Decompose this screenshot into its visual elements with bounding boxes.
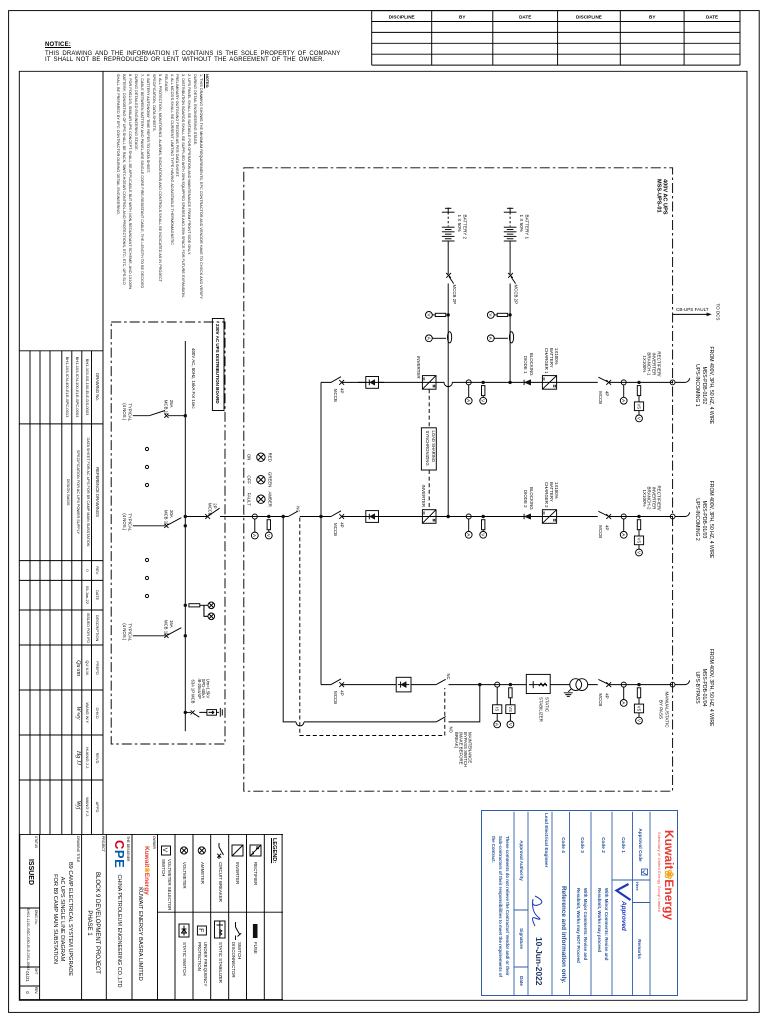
branch-1 wire (rectifier/inverter branch 1) with hop over battery-2 wire: [321, 382, 673, 386]
kuwait energy small logo: [144, 846, 152, 895]
svg-text:A: A: [466, 399, 471, 403]
svg-text:MCCB 2P: MCCB 2P: [514, 285, 519, 305]
stamp logo: [662, 830, 676, 920]
svg-text:A: A: [621, 701, 626, 705]
svg-text:MCCB: MCCB: [598, 391, 603, 404]
svg-text:A: A: [426, 337, 431, 341]
incomer VS transducer tap: [637, 381, 640, 384]
svg-text:V: V: [426, 313, 431, 317]
static stabilizer: [526, 674, 550, 693]
svg-text:CHARGER 1: CHARGER 1: [544, 348, 549, 374]
svg-text:SYNCHRONIZING: SYNCHRONIZING: [425, 431, 430, 466]
svg-text:TYPICAL: TYPICAL: [128, 623, 133, 642]
svg-text:A: A: [495, 723, 500, 727]
load sharing synchronizing box: [421, 428, 436, 470]
battery voltmeter tap with shunt: [497, 313, 508, 316]
svg-text:A: A: [621, 399, 626, 403]
svg-text:INVERTER: INVERTER: [416, 356, 421, 379]
distribution bus metering tap: [184, 604, 187, 607]
title block with legend (rotated): [19, 834, 283, 1000]
svg-text:1 X 50%: 1 X 50%: [519, 215, 524, 232]
svg-text:DIODE 1: DIODE 1: [523, 356, 528, 374]
svg-text:STATIC: STATIC: [544, 697, 549, 712]
discipline table: [372, 11, 740, 66]
svg-text:A: A: [252, 534, 257, 538]
svg-text:MSS-PDB-01/04: MSS-PDB-01/04: [701, 669, 707, 707]
transformer ground: [564, 689, 573, 697]
indicator lamps RED/GREEN/AMBER: [257, 453, 265, 461]
svg-text:CHARGER 2: CHARGER 2: [544, 482, 549, 508]
svg-text:VS: VS: [637, 403, 642, 409]
NO contact on maintenance bypass: [436, 717, 446, 722]
svg-text:BLOCKING: BLOCKING: [529, 487, 534, 510]
svg-text:4P: 4P: [605, 391, 610, 396]
svg-text:NC: NC: [446, 674, 451, 680]
battery 1 (1 X 50%): [507, 207, 513, 209]
svg-text:MSS-PDB-01/02: MSS-PDB-01/02: [701, 367, 707, 405]
output MCCB 4P: [331, 679, 341, 685]
svg-text:400V AC, 50Hz, 16kA For 1sec: 400V AC, 50Hz, 16kA For 1sec: [191, 348, 196, 409]
battery MCCB 2P: [446, 273, 451, 278]
feeder 20A MCB 1P: [133, 525, 165, 527]
svg-text:BATTERY 1: BATTERY 1: [525, 215, 530, 240]
svg-text:VS: VS: [637, 706, 642, 712]
output ammeter tap to distribution: [252, 514, 257, 519]
stamp signature: [529, 892, 549, 934]
svg-text:A: A: [466, 533, 471, 537]
incomer stub through panel border: [670, 514, 675, 519]
wire below MCCB: [509, 284, 511, 310]
svg-text:UPS-INCOMING 1: UPS-INCOMING 1: [694, 364, 700, 407]
stamp tick-here icon: [642, 869, 648, 875]
svg-text:63A 1P MCB: 63A 1P MCB: [191, 680, 196, 704]
charger input MCCB 4P: [598, 377, 608, 382]
svg-text:VS: VS: [637, 538, 642, 544]
legend: static stabilizer symbol: [215, 921, 226, 938]
spare feeder dots: [145, 447, 148, 450]
rectifier / battery charger 1: [542, 376, 556, 390]
svg-text:FROM 400V, 3PH, 50 HZ, 4 WIRE: FROM 400V, 3PH, 50 HZ, 4 WIRE: [708, 481, 714, 559]
svg-text:4P: 4P: [339, 690, 344, 695]
incomer ammeter tap: [621, 380, 626, 385]
svg-text:4P: 4P: [339, 522, 344, 527]
svg-text:STABILIZER: STABILIZER: [539, 697, 544, 722]
SPD surge arrester: [184, 711, 187, 714]
svg-text:MCCB 2P: MCCB 2P: [452, 285, 457, 305]
inverter 1: [422, 376, 436, 390]
battery 2 (1 X 50%): [445, 207, 451, 209]
output bus riser wire: [320, 382, 322, 684]
svg-text:MCCB: MCCB: [598, 693, 603, 706]
battery MCCB 2P: [508, 273, 513, 278]
svg-text:NO: NO: [449, 727, 454, 734]
output voltage transducer tap: [509, 683, 512, 686]
svg-text:ON: ON: [247, 454, 252, 460]
svg-text:(4 NOS.): (4 NOS.): [122, 403, 127, 421]
output voltmeter tap with shunt to distribution: [267, 515, 270, 518]
maintenance NC contact on branch-2 output: [288, 511, 298, 516]
svg-text:NC: NC: [296, 506, 301, 512]
svg-text:MCCB: MCCB: [598, 525, 603, 538]
legend: voltmeter symbol: [180, 847, 187, 854]
svg-text:UPS-BYPASS: UPS-BYPASS: [694, 672, 700, 705]
inverter 2: [422, 510, 436, 524]
legend: rectifier symbol: [250, 845, 261, 856]
svg-text:BLOCKING: BLOCKING: [529, 353, 534, 376]
wire battery drop: [447, 241, 449, 274]
svg-text:MANUAL/STATIC: MANUAL/STATIC: [664, 691, 669, 728]
svg-text:4P: 4P: [605, 693, 610, 698]
wire below MCCB: [447, 284, 449, 310]
bypass ammeter tap: [621, 682, 626, 687]
svg-text:V: V: [636, 551, 641, 555]
svg-text:4P: 4P: [605, 525, 610, 530]
svg-text:V: V: [636, 417, 641, 421]
svg-text:/8-20us/4P: /8-20us/4P: [197, 679, 202, 699]
svg-text:V: V: [508, 723, 513, 727]
svg-text:V: V: [481, 399, 486, 403]
svg-text:INVERTER: INVERTER: [421, 485, 426, 508]
svg-text:V: V: [636, 719, 641, 723]
blocking diode 1: [523, 380, 525, 385]
NC contact at static switch output: [436, 679, 446, 684]
battery 2 wire down, hops over branch-1 bus: [447, 332, 449, 517]
svg-text:4P: 4P: [339, 388, 344, 393]
notice text block: [45, 42, 340, 63]
legend: ammeter symbol: [198, 847, 205, 854]
svg-text:V: V: [488, 313, 493, 317]
svg-text:1 X 50%: 1 X 50%: [457, 215, 462, 232]
svg-text:GREEN: GREEN: [268, 472, 273, 487]
kuwait energy approval stamp (rotated): [480, 810, 678, 997]
feeder 16A MCB 1P: [133, 635, 165, 637]
bus voltmeter tap with shunt: [482, 515, 485, 518]
svg-text:TO DCS: TO DCS: [715, 304, 720, 321]
reference drawings table and revision strip (rotated): [19, 71, 103, 834]
svg-text:CB-UPS FAULT: CB-UPS FAULT: [676, 307, 709, 312]
svg-text:BATTERY 2: BATTERY 2: [463, 215, 468, 240]
bypass connection up to output bus: [449, 685, 480, 722]
svg-text:1X100%: 1X100%: [642, 355, 647, 372]
svg-text:BY PASS: BY PASS: [658, 700, 663, 719]
distribution input MCCB 2P: [205, 514, 210, 519]
svg-text:(4 NOS.): (4 NOS.): [122, 513, 127, 531]
revision strip right boundary line: [102, 71, 104, 834]
svg-text:2P: 2P: [213, 503, 218, 508]
svg-text:LOAD SHARING: LOAD SHARING: [431, 431, 436, 463]
rectifier / battery charger 2: [542, 510, 556, 524]
svg-text:16A: 16A: [169, 620, 174, 628]
battery ammeter with CT ellipse: [432, 337, 446, 339]
svg-text:MCB 1P: MCB 1P: [163, 400, 168, 416]
svg-text:MCB 1P: MCB 1P: [163, 620, 168, 636]
CPE logo: [112, 840, 127, 868]
branch-1 input MCCB 4P: [331, 377, 341, 383]
svg-text:400V AC UPS: 400V AC UPS: [662, 179, 668, 215]
load sharing synchronizing dashed link: [428, 389, 430, 510]
branch-2 input MCCB 4P: [331, 511, 341, 517]
incomer VS transducer tap: [637, 515, 640, 518]
svg-text:230V AC UPS DISTRIBUTION BOARD: 230V AC UPS DISTRIBUTION BOARD: [215, 324, 220, 404]
bus ammeter tap: [466, 380, 471, 385]
svg-text:TYPICAL: TYPICAL: [128, 403, 133, 422]
svg-text:MCCB: MCCB: [207, 503, 212, 516]
legend: static switch symbol: [179, 924, 189, 937]
svg-text:RED: RED: [268, 453, 273, 462]
svg-text:UPS-INCOMING 2: UPS-INCOMING 2: [694, 498, 700, 541]
svg-text:MCCB: MCCB: [333, 389, 338, 402]
inverter static switch box: [366, 377, 379, 389]
svg-text:MSS-PDB-01/03: MSS-PDB-01/03: [701, 501, 707, 539]
hop of bypass wire over dashed linkage: [296, 722, 304, 726]
battery 1 wire down to branch-1 bus: [509, 332, 511, 383]
legend: voltmeter selector switch symbol: [162, 846, 171, 855]
stamp check mark: [617, 884, 631, 900]
bypass MCCB 4P: [598, 679, 608, 684]
wire battery drop: [509, 241, 511, 274]
svg-text:OFF: OFF: [247, 475, 252, 484]
bus voltmeter tap with shunt: [482, 381, 485, 384]
bus ammeter tap: [466, 514, 471, 519]
wire: [509, 310, 511, 332]
svg-text:A: A: [621, 533, 626, 537]
UPS panel dash-dot boundary MSS-UPS-01: [244, 168, 673, 791]
maintenance bypass dashed linkage: [300, 518, 445, 736]
incomer stub through panel border: [670, 682, 675, 687]
bypass VS transducer tap: [637, 683, 640, 686]
bypass/output wire: [321, 684, 673, 686]
svg-text:25A: 25A: [169, 400, 174, 408]
bypass feed riser wire: [283, 517, 436, 722]
svg-text:20A: 20A: [169, 510, 174, 518]
svg-text:AMBER: AMBER: [268, 492, 273, 507]
isolation transformer: [570, 679, 582, 691]
svg-text:MSS-UPS-01: MSS-UPS-01: [655, 179, 661, 213]
svg-text:FROM 400V, 3PH, 50 HZ, 4 WIRE: FROM 400V, 3PH, 50 HZ, 4 WIRE: [708, 347, 714, 425]
svg-text:1X100%: 1X100%: [642, 489, 647, 506]
legend: fuse symbol: [253, 924, 258, 938]
svg-text:VS: VS: [508, 706, 513, 712]
svg-text:TYPICAL: TYPICAL: [128, 513, 133, 532]
legend: switch disconnector symbol: [236, 922, 242, 940]
distribution bus: [184, 341, 186, 731]
incomer stub through panel border: [670, 380, 675, 385]
wire: [447, 310, 449, 332]
blocking diode 2: [523, 514, 525, 519]
svg-text:FAULT: FAULT: [247, 493, 252, 506]
distribution board label box: [212, 319, 224, 411]
feeder 25A MCB 1P: [133, 415, 149, 417]
svg-text:MCCB: MCCB: [333, 523, 338, 536]
legend: circuit breaker symbol: [219, 843, 224, 859]
svg-text:IS: IS: [495, 707, 500, 711]
svg-text:FROM 400V, 3PH, 50 HZ, 4 WIRE: FROM 400V, 3PH, 50 HZ, 4 WIRE: [708, 649, 714, 727]
svg-text:A: A: [488, 337, 493, 341]
svg-text:V: V: [481, 533, 486, 537]
legend: inverter symbol: [232, 845, 243, 856]
svg-text:MCB 1P: MCB 1P: [163, 510, 168, 526]
svg-text:(4 NOS.): (4 NOS.): [122, 623, 127, 641]
svg-text:V: V: [266, 534, 271, 538]
230V distribution board dash-dot boundary: [111, 322, 225, 744]
branch-2 wire (rectifier/inverter branch 2): [185, 516, 672, 518]
battery ammeter with CT ellipse: [494, 337, 508, 339]
battery voltmeter tap with shunt: [435, 313, 446, 316]
charger input MCCB 4P: [598, 511, 608, 516]
inverter static switch box: [366, 511, 379, 523]
static switch: [396, 677, 411, 692]
svg-text:MCCB: MCCB: [333, 691, 338, 704]
incomer ammeter tap: [621, 514, 626, 519]
notes paragraph (rotated): [115, 74, 210, 306]
svg-text:BREAK): BREAK): [454, 732, 459, 749]
legend: under frequency protection symbol: [197, 926, 206, 935]
output current transducer tap: [495, 682, 500, 687]
svg-text:DIODE 2: DIODE 2: [523, 490, 528, 508]
